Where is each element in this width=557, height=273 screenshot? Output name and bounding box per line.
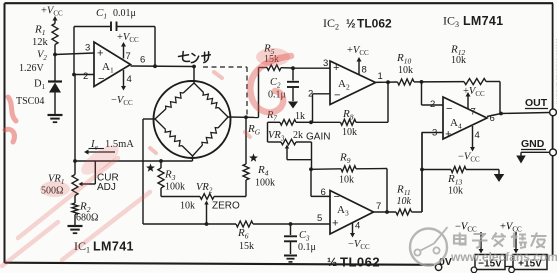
svg-text:TL062: TL062 — [357, 17, 392, 31]
wire A1 pin2 column — [74, 75, 76, 175]
svg-text:10k: 10k — [339, 175, 354, 186]
svg-text:½: ½ — [327, 255, 337, 269]
svg-text:www.elecfans.com: www.elecfans.com — [450, 250, 557, 264]
svg-text:10k: 10k — [342, 127, 357, 138]
label IC1 LM741 — [74, 239, 134, 255]
label IC3 LM741 — [443, 14, 503, 30]
svg-text:ADJ: ADJ — [97, 182, 116, 193]
svg-text:+: + — [333, 62, 339, 74]
op-amp A4 — [443, 97, 487, 141]
current label Ie 1.5mA — [84, 139, 134, 155]
bridge arm resistor (top-left) — [183, 83, 194, 93]
power +Vcc (R1 top) — [41, 6, 63, 24]
svg-text:½: ½ — [346, 19, 356, 31]
svg-text:+: + — [445, 129, 451, 141]
pin7 +Vcc (A1) — [117, 32, 139, 62]
svg-text:LM741: LM741 — [463, 14, 503, 28]
ground (C2) — [288, 102, 298, 109]
svg-text:2k: 2k — [293, 130, 303, 141]
svg-text:1: 1 — [378, 71, 383, 82]
svg-text:10k: 10k — [451, 55, 466, 66]
svg-text:−: − — [98, 73, 104, 85]
terminal box +15V — [509, 255, 547, 273]
wire A4 output to OUT — [487, 112, 550, 124]
wire A3 output — [374, 201, 397, 214]
svg-text:TL062: TL062 — [340, 255, 380, 270]
svg-text:TSC04: TSC04 — [16, 96, 44, 107]
svg-text:680Ω: 680Ω — [76, 213, 98, 224]
svg-text:+: + — [332, 218, 338, 230]
ground (GND terminal) — [516, 156, 526, 164]
wire bridge right vertex to R5 — [228, 68, 259, 120]
resistor R9 10k feedback — [311, 152, 387, 213]
op-amp A1 — [83, 42, 131, 87]
svg-text:3: 3 — [323, 58, 328, 69]
svg-text:1k: 1k — [295, 111, 305, 122]
svg-text:5: 5 — [317, 213, 322, 224]
svg-text:−: − — [334, 90, 340, 102]
svg-text:12k: 12k — [32, 37, 49, 48]
svg-text:−: − — [334, 191, 340, 203]
pin2 wire (A2 inverting) — [308, 89, 330, 123]
wire V2 to A1 pin3 — [55, 53, 94, 55]
resistor R1 12k — [32, 24, 58, 55]
power -Vcc to -15V — [455, 222, 484, 254]
resistor R10 10k — [396, 52, 422, 85]
wire A2 output — [376, 71, 398, 122]
pin3 wire (A4 non-inverting) — [422, 128, 444, 213]
bridge arm resistor (bottom-right) — [218, 117, 228, 128]
bridge sensor circle — [154, 81, 231, 158]
pin4 -Vcc (A3) — [348, 221, 370, 252]
watermark chinese text — [454, 233, 547, 249]
terminal box -15V — [471, 255, 505, 273]
wire A1 output (sensor line) — [131, 55, 196, 69]
svg-text:10k: 10k — [180, 201, 195, 212]
svg-text:3: 3 — [432, 128, 437, 139]
node V2 1.26V — [19, 50, 57, 75]
svg-text:+: + — [97, 48, 103, 60]
svg-text:10k: 10k — [398, 65, 413, 76]
svg-text:4: 4 — [127, 74, 132, 85]
watermark logo circle — [410, 227, 448, 266]
svg-text:OUT: OUT — [525, 97, 548, 109]
resistor R3 100k — [146, 161, 185, 197]
svg-text:8: 8 — [362, 65, 367, 76]
bridge arm resistor (top-right) — [194, 83, 204, 93]
svg-text:15k: 15k — [239, 241, 254, 252]
potentiometer VR2 10k ZERO — [180, 182, 246, 224]
svg-text:4: 4 — [355, 221, 360, 232]
label 1/2 TL062 (A3) — [327, 255, 380, 270]
svg-text:100k: 100k — [165, 182, 185, 193]
svg-text:6: 6 — [140, 55, 145, 66]
svg-text:7: 7 — [126, 51, 131, 62]
capacitor C3 0.1u — [284, 224, 316, 254]
wire bridge bottom to current rail — [73, 156, 192, 163]
op-amp A3 — [317, 191, 374, 235]
resistor R6 15k — [143, 221, 330, 252]
resistor R11 10k — [396, 133, 422, 216]
terminal OUT — [525, 97, 556, 116]
right bus wire — [552, 3, 554, 255]
svg-text:1.26V: 1.26V — [19, 63, 45, 74]
svg-text:6: 6 — [321, 187, 326, 198]
node A2 inverting junction — [309, 120, 313, 124]
potentiometer VR3 2k GAIN — [268, 130, 331, 169]
pin2 wire (A4 inverting) — [422, 82, 444, 110]
sensor dashed box — [203, 67, 247, 116]
pin8 +Vcc (A2) — [347, 45, 369, 76]
label IC2 1/2 TL062 — [323, 16, 392, 32]
svg-text:2: 2 — [430, 99, 435, 110]
pin4 -Vcc (A4) — [458, 126, 480, 164]
label sensor (katakana) — [179, 52, 211, 63]
diode D1 TSC04 — [16, 55, 62, 115]
red stamp marks — [2, 56, 291, 266]
capacitor C1 0.01u feedback — [72, 7, 155, 76]
op-amp A2 — [330, 61, 376, 105]
node A4 input junction — [420, 80, 424, 84]
ground (R13) — [494, 174, 505, 182]
resistor R7 1k — [266, 110, 311, 142]
pin7 +Vcc (A4) — [463, 86, 485, 118]
pin4 -Vcc (A1) — [111, 70, 133, 107]
node A2 +input — [291, 58, 330, 70]
wire bridge left vertex down to R6 line — [143, 119, 155, 224]
wire zero line — [161, 196, 200, 198]
svg-text:GAIN: GAIN — [306, 132, 330, 143]
terminal 0V — [435, 256, 451, 270]
svg-text:7: 7 — [471, 107, 476, 118]
resistor R4 100k — [243, 117, 275, 196]
svg-text:3: 3 — [85, 43, 90, 54]
bridge arm resistor (bottom-left) — [155, 119, 166, 129]
potentiometer VR1 500ohm CUR ADJ — [41, 161, 119, 197]
ground (C3) — [284, 255, 297, 257]
ground (D1) — [48, 114, 63, 116]
svg-text:0.01μ: 0.01μ — [113, 8, 136, 19]
resistor R8 10k — [311, 108, 388, 138]
svg-text:10k: 10k — [397, 196, 412, 207]
svg-text:10k: 10k — [448, 186, 463, 197]
power +Vcc to +15V — [500, 222, 522, 254]
resistor R5 15k — [259, 43, 294, 71]
resistor R2 680ohm — [72, 196, 98, 226]
svg-text:GND: GND — [521, 138, 545, 150]
svg-text:7: 7 — [376, 201, 381, 212]
svg-text:2: 2 — [83, 71, 88, 82]
svg-text:LM741: LM741 — [93, 240, 134, 254]
svg-text:4: 4 — [475, 130, 480, 141]
wire bridge top lead — [193, 67, 195, 84]
svg-text:−: − — [446, 103, 452, 115]
terminal GND — [521, 138, 556, 156]
svg-text:0.1μ: 0.1μ — [298, 242, 316, 253]
node A3 inverting junction — [309, 167, 330, 198]
svg-text:ZERO: ZERO — [212, 201, 240, 212]
svg-text:100k: 100k — [255, 178, 275, 189]
capacitor C2 0.1u — [268, 68, 299, 101]
resistor R12 10k feedback — [422, 44, 501, 114]
ground (R2) — [68, 225, 83, 227]
resistor R13 10k — [420, 167, 499, 197]
